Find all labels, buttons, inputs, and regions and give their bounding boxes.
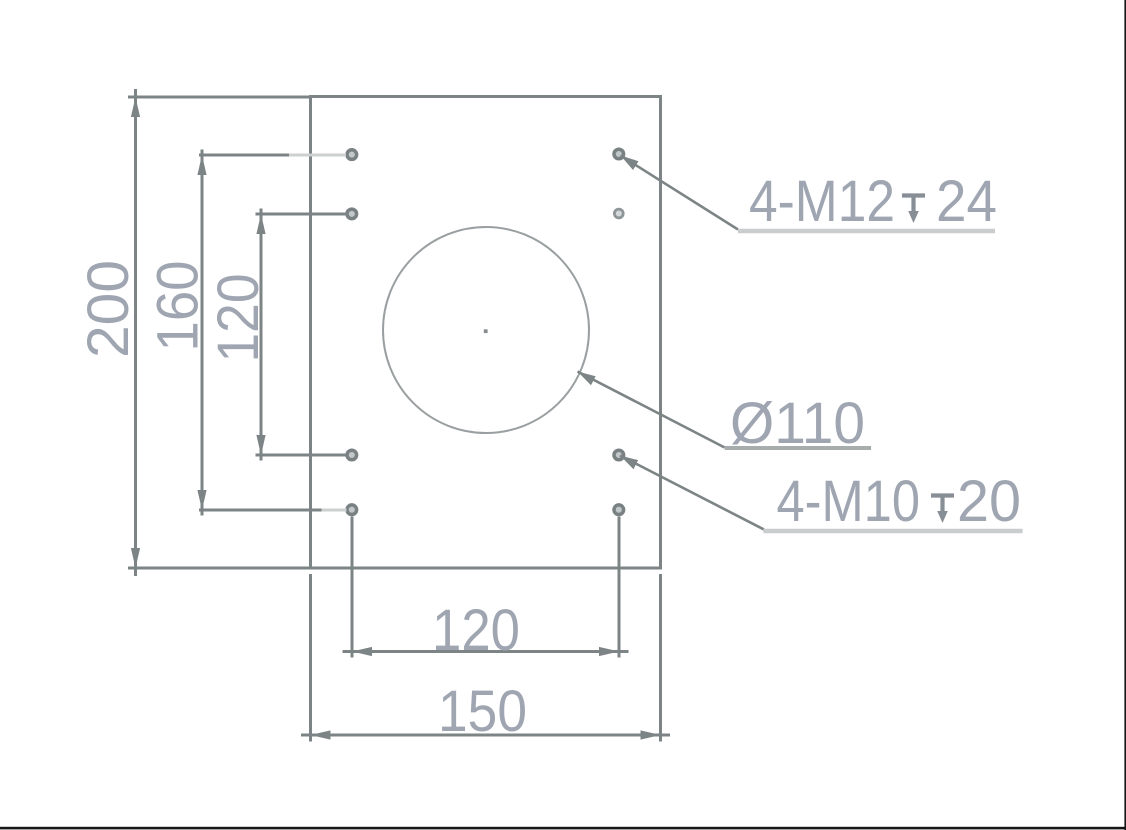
svg-text:120: 120 [432,598,520,663]
svg-text:150: 150 [438,679,527,744]
dimension 160 bottom extension line [199,509,347,512]
dimension 160 text [146,261,211,352]
svg-text:120: 120 [206,274,271,363]
label O110 [730,391,865,456]
dimension 200 text [76,260,141,358]
svg-text:4-M10: 4-M10 [777,469,921,534]
hole H8 bottom-right [614,505,624,515]
dimension 200 line [131,89,140,576]
dimension 120 bottom left extension line [351,517,354,658]
label 4-M12 depth 24 [749,169,997,234]
dimension 160 top extension line [199,154,346,157]
svg-text:20: 20 [957,469,1021,534]
leader O110 [578,372,872,449]
image border right [1124,0,1126,830]
hole H5 lower-left inner [347,450,357,460]
hole H7 bottom-left [347,505,357,515]
image border bottom [0,827,1126,830]
hole H2 top-right [614,149,624,159]
dimension 120 left line [256,209,265,461]
svg-text:160: 160 [146,261,211,352]
dimension 200 bottom extension line [128,567,311,570]
svg-text:200: 200 [76,260,141,358]
bore circle O110 [383,227,589,433]
dimension 120 bottom right extension line [618,517,621,658]
dimension 120 bottom line [343,647,629,656]
leader M12 [621,156,996,232]
svg-text:Ø110: Ø110 [730,391,865,456]
dimension 150 right extension line [659,574,662,742]
center dot [484,329,488,333]
leader M10 [620,456,1023,532]
svg-text:24: 24 [936,169,997,234]
dimension 120 left top extension line [256,213,347,216]
dimension 150 text [438,679,527,744]
plate outline [311,97,661,569]
dimension 150 left extension line [309,574,312,742]
dimension 120 bottom text [432,598,520,663]
dimension 160 line [197,150,206,516]
svg-text:4-M12: 4-M12 [749,169,895,234]
hole H4 upper-right inner [614,209,623,218]
hole H6 lower-right inner [614,450,624,460]
hole H3 upper-left inner [347,209,357,219]
dimension 200 top extension line [128,96,311,99]
label 4-M10 depth 20 [777,469,1022,534]
dimension 150 line [301,730,670,739]
dimension 120 left text [206,274,271,363]
hole H1 top-left [347,150,357,160]
dimension 120 left bottom extension line [256,454,347,457]
